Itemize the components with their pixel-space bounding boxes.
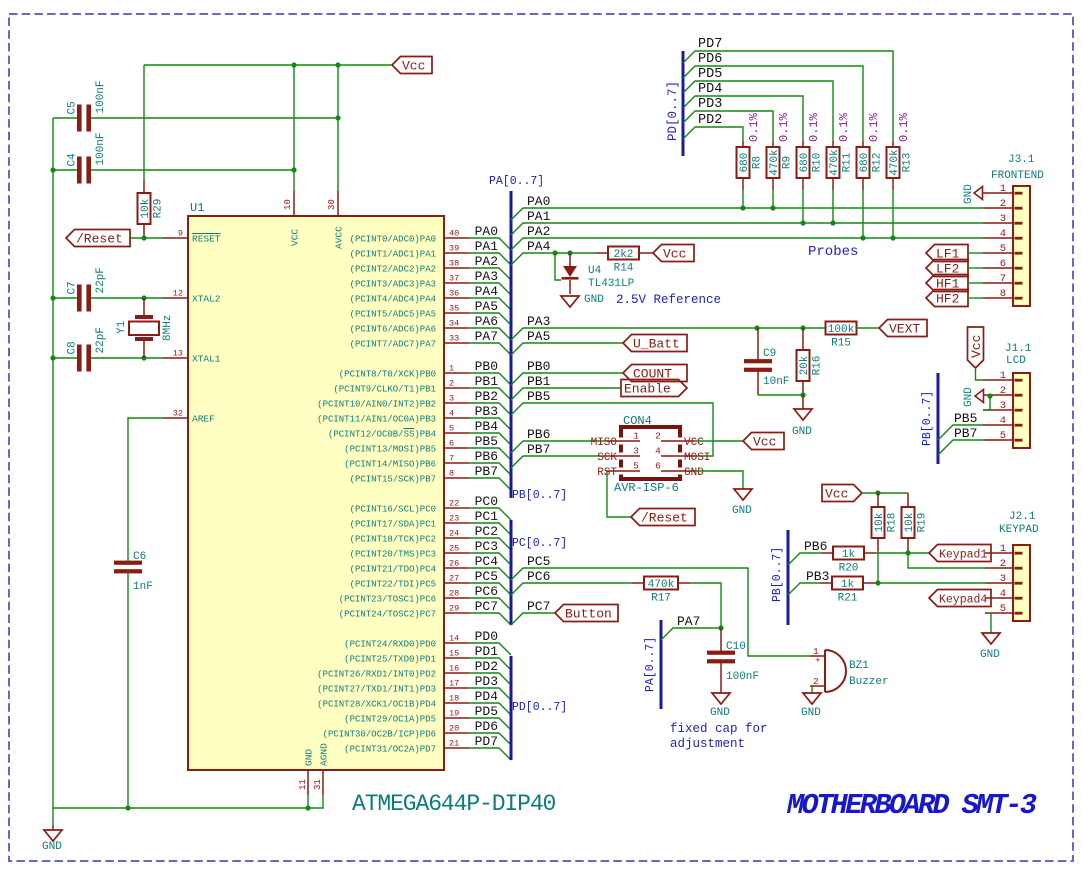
wire LF2 to J3.1 <box>968 267 983 269</box>
bus PD[0..7] top right <box>682 51 685 156</box>
junction R13-probe wire <box>890 235 895 240</box>
svg-text:C7: C7 <box>67 281 79 294</box>
svg-text:PD4: PD4 <box>475 689 499 704</box>
svg-text:(PCINT9/CLKO/T1)PB1: (PCINT9/CLKO/T1)PB1 <box>333 384 436 394</box>
svg-text:PD6: PD6 <box>698 52 722 67</box>
svg-text:1: 1 <box>1000 370 1006 382</box>
pin 37 PA3 of U1 with wire to bus <box>350 269 511 295</box>
svg-text:R21: R21 <box>838 593 858 605</box>
svg-text:GND: GND <box>801 707 821 719</box>
svg-text:GND: GND <box>304 749 315 766</box>
svg-text:5: 5 <box>1000 430 1006 442</box>
svg-text:U_Batt: U_Batt <box>633 337 680 352</box>
svg-text:8: 8 <box>449 469 454 479</box>
svg-text:PD0: PD0 <box>475 629 498 644</box>
svg-text:FRONTEND: FRONTEND <box>991 170 1044 182</box>
svg-text:(PCINT6/ADC6)PA6: (PCINT6/ADC6)PA6 <box>350 324 436 334</box>
wire C4 row <box>53 169 77 171</box>
svg-text:MOSI: MOSI <box>684 452 710 464</box>
svg-text:6: 6 <box>449 439 454 449</box>
svg-text:0.1%: 0.1% <box>837 112 851 142</box>
svg-text:(PCINT16/SCL)PC0: (PCINT16/SCL)PC0 <box>350 504 436 514</box>
connector CON4 AVR-ISP-6 <box>591 414 711 495</box>
bus PD vertical segment <box>510 656 513 760</box>
bus PC vertical segment <box>510 520 513 625</box>
junction C6-GND wire <box>125 805 130 810</box>
hierarchical label HF2 <box>926 290 968 307</box>
svg-text:31: 31 <box>313 779 323 790</box>
svg-text:0.1%: 0.1% <box>777 112 791 142</box>
ground symbol C10 <box>710 693 730 719</box>
svg-text:PA4: PA4 <box>527 239 551 254</box>
resistor R21 1k <box>820 577 876 605</box>
svg-text:PD2: PD2 <box>698 113 722 128</box>
pin 22 PC0 of U1 with wire to bus <box>350 494 511 520</box>
net PB7 wire to CON4 SCK <box>511 456 606 468</box>
svg-text:GND: GND <box>963 184 975 204</box>
pin 32 AREF of U1 <box>163 409 215 425</box>
pin 5 PB4 of U1 with wire to bus <box>328 419 511 445</box>
svg-text:40: 40 <box>449 229 459 239</box>
svg-text:GND: GND <box>732 505 752 517</box>
wire R29 bottom to RESET <box>130 237 163 239</box>
net PB1 wire to Enable <box>511 388 621 400</box>
svg-text:7: 7 <box>1000 273 1006 285</box>
pin 13 XTAL1 of U1 <box>163 349 221 365</box>
svg-text:0.1%: 0.1% <box>897 112 911 142</box>
svg-text:(PCINT28/XCK1/OC1B)PD4: (PCINT28/XCK1/OC1B)PD4 <box>317 699 436 709</box>
svg-text:3: 3 <box>1000 213 1006 225</box>
junction R29-RESET <box>141 235 146 240</box>
svg-text:Vcc: Vcc <box>753 435 776 450</box>
voltage reference U4 TL431LP <box>555 253 635 294</box>
wire R29 top to Vcc rail <box>143 65 145 180</box>
svg-text:0.1%: 0.1% <box>747 112 761 142</box>
svg-text:Probes: Probes <box>808 244 858 260</box>
svg-text:PD[0..7]: PD[0..7] <box>666 81 680 141</box>
hierarchical label Keypad1 <box>929 545 991 562</box>
wire R10 bottom to probe row <box>802 190 804 223</box>
svg-text:PB[0..7]: PB[0..7] <box>921 391 934 446</box>
wire Vcc to J1.1 pin1 <box>976 368 984 380</box>
wire R12 bottom to probe row <box>862 190 864 238</box>
svg-text:22: 22 <box>449 499 459 509</box>
svg-text:CON4: CON4 <box>623 414 652 428</box>
pin 26 PC4 of U1 with wire to bus <box>350 554 511 580</box>
svg-text:(PCINT7/ADC7)PA7: (PCINT7/ADC7)PA7 <box>350 339 436 349</box>
junction J1.1 pin2 GND <box>987 393 992 398</box>
svg-text:1: 1 <box>449 364 454 374</box>
resistor R29 10k <box>138 180 165 238</box>
svg-text:(PCINT1/ADC1)PA1: (PCINT1/ADC1)PA1 <box>350 249 436 259</box>
net PA2 wire to J3.1 pin 4 <box>511 238 983 250</box>
svg-text:9: 9 <box>178 229 183 239</box>
svg-text:PA1: PA1 <box>475 239 499 254</box>
svg-text:fixed cap for: fixed cap for <box>670 722 768 736</box>
wire Vcc rail top <box>144 64 392 66</box>
pin 35 PA5 of U1 with wire to bus <box>350 299 511 325</box>
wire LF1 to J3.1 <box>968 252 983 254</box>
svg-text:(PCINT24/RXD0)PD0: (PCINT24/RXD0)PD0 <box>344 639 436 649</box>
svg-text:32: 32 <box>173 409 183 419</box>
svg-text:PB7: PB7 <box>527 442 550 457</box>
svg-text:C4: C4 <box>67 153 79 167</box>
svg-text:Vcc: Vcc <box>825 487 848 502</box>
svg-text:2: 2 <box>1000 198 1006 210</box>
svg-text:PD1: PD1 <box>475 644 499 659</box>
pin 30 AVCC of U1 <box>327 191 345 249</box>
net PA0 wire to J3.1 pin 2 <box>511 208 983 220</box>
svg-text:(PCINT30/OC2B/ICP)PD6: (PCINT30/OC2B/ICP)PD6 <box>323 729 436 739</box>
pin 14 PD0 of U1 with wire to bus <box>344 629 511 655</box>
svg-text:(PCINT24/TOSC2)PC7: (PCINT24/TOSC2)PC7 <box>339 609 436 619</box>
svg-text:30: 30 <box>327 199 337 210</box>
svg-text:LCD: LCD <box>1006 355 1026 367</box>
svg-text:PB7: PB7 <box>475 464 498 479</box>
svg-text:(PCINT5/ADC5)PA5: (PCINT5/ADC5)PA5 <box>350 309 436 319</box>
svg-text:4: 4 <box>1000 228 1006 240</box>
resistor R12 680 0.1% <box>857 112 884 190</box>
ground symbol BZ1 <box>801 693 821 719</box>
svg-text:4: 4 <box>1000 588 1006 600</box>
svg-text:PA5: PA5 <box>527 329 550 344</box>
svg-text:U4: U4 <box>588 265 602 277</box>
svg-text:PC5: PC5 <box>527 554 550 569</box>
pin 16 PD2 of U1 with wire to bus <box>317 659 511 685</box>
svg-text:/Reset: /Reset <box>76 232 123 247</box>
pin 25 PC3 of U1 with wire to bus <box>350 539 511 565</box>
wire left GND rail <box>52 118 54 808</box>
svg-text:(PCINT14/MISO)PB6: (PCINT14/MISO)PB6 <box>344 459 436 469</box>
svg-text:2: 2 <box>449 379 454 389</box>
svg-text:PB5: PB5 <box>954 411 977 426</box>
bus PA[0..7] bottom <box>660 620 663 709</box>
svg-text:PB3: PB3 <box>475 404 498 419</box>
svg-text:J3.1: J3.1 <box>1008 154 1035 166</box>
junction R11-probe wire <box>830 220 835 225</box>
svg-text:PD7: PD7 <box>475 734 498 749</box>
pin 29 PC7 of U1 with wire to bus <box>339 599 511 625</box>
svg-text:22pF: 22pF <box>95 267 107 293</box>
power label Vcc at J1.1 vertical <box>968 327 984 368</box>
svg-text:5: 5 <box>449 424 454 434</box>
wire R11 bottom to probe row <box>832 190 834 223</box>
net PD2 wire to resistor column <box>683 127 743 141</box>
connector J3.1 FRONTEND <box>983 154 1044 306</box>
svg-text:5: 5 <box>1000 243 1006 255</box>
svg-text:VCC: VCC <box>684 437 704 449</box>
svg-text:PC6: PC6 <box>475 584 498 599</box>
svg-text:RESET: RESET <box>192 233 221 244</box>
wire AREF to C6 <box>128 418 163 562</box>
svg-text:R18: R18 <box>887 513 899 533</box>
wire Vcc to R18 R19 <box>862 492 908 494</box>
svg-text:AVCC: AVCC <box>334 226 345 249</box>
junction PA4-TL431 ref <box>552 250 557 255</box>
net PC7 wire to Button <box>511 613 555 625</box>
wire R21 to J2.1 pin3 <box>876 582 985 584</box>
svg-text:TL431LP: TL431LP <box>588 278 635 290</box>
junction PA7-C10 <box>718 625 723 630</box>
svg-text:(PCINT25/TXD0)PD1: (PCINT25/TXD0)PD1 <box>344 654 436 664</box>
svg-text:28: 28 <box>449 589 459 599</box>
svg-text:680: 680 <box>799 153 811 173</box>
junction rail-C7 <box>50 295 55 300</box>
wire CON4 VCC to Vcc label <box>695 440 743 442</box>
hierarchical label Enable <box>621 380 687 397</box>
svg-text:(PCINT15/SCK)PB7: (PCINT15/SCK)PB7 <box>350 474 436 484</box>
svg-text:Buzzer: Buzzer <box>849 676 889 688</box>
net PD6 wire to resistor column <box>683 66 863 141</box>
buzzer BZ1 <box>810 646 889 692</box>
wire J2.1 pin5 to GND <box>990 613 992 633</box>
resistor R15 100k <box>826 322 880 350</box>
svg-text:20k: 20k <box>799 355 811 375</box>
svg-text:100nF: 100nF <box>726 671 759 683</box>
junction R18-PB3 <box>875 580 880 585</box>
svg-text:+: + <box>815 655 821 666</box>
svg-text:AGND: AGND <box>319 743 330 766</box>
svg-text:PB1: PB1 <box>527 374 551 389</box>
junction C5-AVCC <box>335 115 340 120</box>
svg-text:VCC: VCC <box>290 229 301 246</box>
svg-text:PA0: PA0 <box>527 194 550 209</box>
capacitor C9 10nF <box>744 328 789 395</box>
svg-text:8: 8 <box>1000 288 1006 300</box>
svg-text:GND: GND <box>584 294 604 306</box>
ground symbol U4 <box>561 294 604 307</box>
svg-text:2: 2 <box>1000 385 1006 397</box>
wire R18 bottom to PB3 row <box>877 551 879 583</box>
net PB5 wire to J1.1 pin4 <box>938 425 983 440</box>
wire R9 bottom to probe row <box>772 190 774 208</box>
pin 18 PD4 of U1 with wire to bus <box>317 689 511 715</box>
svg-text:27: 27 <box>449 574 459 584</box>
svg-text:22pF: 22pF <box>95 327 107 353</box>
wire C7 row <box>53 297 77 299</box>
svg-text:C6: C6 <box>133 551 146 563</box>
pin 10 VCC of U1 <box>283 191 301 246</box>
net PC6 wire to R17 <box>511 583 632 595</box>
svg-text:10: 10 <box>283 199 293 210</box>
resistor R10 680 0.1% <box>797 112 824 190</box>
svg-text:SCK: SCK <box>597 452 617 464</box>
svg-text:3: 3 <box>1000 400 1006 412</box>
svg-text:R17: R17 <box>651 593 671 605</box>
svg-text:36: 36 <box>449 289 459 299</box>
net PA1 wire to J3.1 pin 3 <box>511 223 983 235</box>
svg-text:PB6: PB6 <box>527 427 550 442</box>
junction C4-VCC <box>291 167 296 172</box>
svg-text:Y1: Y1 <box>116 320 128 334</box>
wire CON4 GND <box>695 471 743 489</box>
net PB0 wire to COUNT <box>511 373 623 385</box>
svg-text:PB0: PB0 <box>475 359 498 374</box>
svg-text:(PCINT11/AIN1/OC0A)PB3: (PCINT11/AIN1/OC0A)PB3 <box>317 414 436 424</box>
svg-text:PA2: PA2 <box>527 224 550 239</box>
svg-text:BZ1: BZ1 <box>849 660 869 672</box>
wire R13 bottom to probe row <box>892 190 894 238</box>
connector J2.1 KEYPAD <box>985 511 1039 621</box>
svg-text:PD3: PD3 <box>698 97 722 112</box>
svg-text:14: 14 <box>449 634 459 644</box>
svg-text:R10: R10 <box>812 153 824 173</box>
svg-text:11: 11 <box>298 779 308 790</box>
pin 7 PB6 of U1 with wire to bus <box>344 449 511 475</box>
svg-text:AREF: AREF <box>192 413 215 424</box>
svg-text:1k: 1k <box>842 549 856 561</box>
net PB6 wire to R20 <box>788 553 821 565</box>
svg-text:PB3: PB3 <box>806 569 829 584</box>
svg-text:GND: GND <box>42 841 62 853</box>
svg-text:PB5: PB5 <box>527 389 550 404</box>
svg-text:2k2: 2k2 <box>614 249 634 261</box>
svg-text:Vcc: Vcc <box>663 247 686 262</box>
svg-text:PC0: PC0 <box>475 494 498 509</box>
svg-text:PA5: PA5 <box>475 299 498 314</box>
svg-text:15: 15 <box>449 649 459 659</box>
svg-text:VEXT: VEXT <box>889 322 920 337</box>
wire R8 bottom to probe row <box>742 190 744 208</box>
resistor R17 470k <box>632 577 690 605</box>
svg-text:Keypad1: Keypad1 <box>939 549 987 562</box>
svg-text:PA2: PA2 <box>475 254 498 269</box>
svg-text:100nF: 100nF <box>95 80 107 113</box>
svg-text:8MHz: 8MHz <box>162 315 174 341</box>
junction R10-probe wire <box>800 220 805 225</box>
svg-text:PA6: PA6 <box>475 314 498 329</box>
pin 39 PA1 of U1 with wire to bus <box>350 239 511 265</box>
svg-text:PC5: PC5 <box>475 569 498 584</box>
wire HF1 to J3.1 <box>968 282 983 284</box>
pin 24 PC2 of U1 with wire to bus <box>350 524 511 550</box>
svg-text:Enable: Enable <box>624 382 671 397</box>
svg-text:PD2: PD2 <box>475 659 498 674</box>
pin 17 PD3 of U1 with wire to bus <box>317 674 511 700</box>
svg-text:J1.1: J1.1 <box>1005 343 1032 355</box>
pin 33 PA7 of U1 with wire to bus <box>350 329 511 355</box>
pin 1 PB0 of U1 with wire to bus <box>339 359 511 385</box>
svg-text:(PCINT23/TOSC1)PC6: (PCINT23/TOSC1)PC6 <box>339 594 436 604</box>
hierarchical label /Reset left <box>66 230 130 247</box>
svg-text:PB0: PB0 <box>527 359 550 374</box>
svg-text:PA4: PA4 <box>475 284 499 299</box>
svg-text:GND: GND <box>792 426 812 438</box>
junction R16 bottom <box>800 392 805 397</box>
net PB3 wire to R21 <box>788 583 820 595</box>
svg-text:470k: 470k <box>889 149 901 176</box>
svg-text:PD6: PD6 <box>475 719 498 734</box>
junction PA4-TL431 cathode <box>567 250 572 255</box>
ground symbol J2.1 <box>980 633 1000 661</box>
pin 12 XTAL2 of U1 <box>163 289 221 305</box>
junction Vcc-VCC pin <box>291 62 296 67</box>
resistor R13 470k 0.1% <box>887 112 914 190</box>
svg-text:PC2: PC2 <box>475 524 498 539</box>
svg-text:C5: C5 <box>67 101 79 114</box>
svg-text:3: 3 <box>449 394 454 404</box>
svg-text:2.5V Reference: 2.5V Reference <box>616 293 721 307</box>
hierarchical label Button <box>555 605 618 622</box>
svg-text:38: 38 <box>449 259 459 269</box>
svg-text:680: 680 <box>859 153 871 173</box>
svg-text:PA7: PA7 <box>475 329 498 344</box>
pin 8 PB7 of U1 with wire to bus <box>350 464 511 490</box>
svg-text:PA[0..7]: PA[0..7] <box>489 175 544 188</box>
svg-text:2: 2 <box>813 676 819 687</box>
svg-text:3: 3 <box>1000 573 1006 585</box>
wire C6 bottom <box>127 572 129 808</box>
svg-text:(PCINT4/ADC4)PA4: (PCINT4/ADC4)PA4 <box>350 294 436 304</box>
resistor R11 470k 0.1% <box>827 112 854 190</box>
hierarchical label VEXT <box>879 320 927 337</box>
net PB5 wire to CON4 MOSI <box>511 403 713 456</box>
pin 2 PB1 of U1 with wire to bus <box>333 374 511 400</box>
hierarchical label COUNT <box>623 365 687 382</box>
svg-text:KEYPAD: KEYPAD <box>999 524 1039 536</box>
svg-text:2: 2 <box>1000 558 1006 570</box>
capacitor C8 22pF <box>67 327 108 371</box>
svg-text:PA1: PA1 <box>527 209 551 224</box>
svg-text:PD[0..7]: PD[0..7] <box>512 701 567 714</box>
svg-text:PA3: PA3 <box>527 314 550 329</box>
svg-text:PB6: PB6 <box>804 539 827 554</box>
svg-text:(PCINT13/MOSI)PB5: (PCINT13/MOSI)PB5 <box>344 444 436 454</box>
svg-text:26: 26 <box>449 559 459 569</box>
junction R19-PB6 <box>905 550 910 555</box>
pin 23 PC1 of U1 with wire to bus <box>350 509 511 535</box>
wire J1.1 pin2 to pin3 <box>983 396 990 410</box>
svg-text:XTAL1: XTAL1 <box>192 353 221 364</box>
svg-text:(PCINT29/OC1A)PD5: (PCINT29/OC1A)PD5 <box>344 714 436 724</box>
svg-text:PC3: PC3 <box>475 539 498 554</box>
hierarchical label LF1 <box>926 245 968 262</box>
svg-text:/Reset: /Reset <box>641 511 688 526</box>
svg-text:1nF: 1nF <box>133 581 153 593</box>
svg-text:6: 6 <box>1000 258 1006 270</box>
svg-text:18: 18 <box>449 694 459 704</box>
svg-text:PC1: PC1 <box>475 509 499 524</box>
pin 40 PA0 of U1 with wire to bus <box>350 224 511 250</box>
svg-text:PC6: PC6 <box>527 569 550 584</box>
net PD5 wire to resistor column <box>683 81 833 141</box>
svg-text:10k: 10k <box>904 512 916 532</box>
svg-text:(PCINT26/RXD1/INT0)PD2: (PCINT26/RXD1/INT0)PD2 <box>317 669 436 679</box>
capacitor C6 1nF <box>114 551 153 593</box>
net PD4 wire to resistor column <box>683 96 803 141</box>
junction R8-probe wire <box>740 205 745 210</box>
svg-text:XTAL2: XTAL2 <box>192 293 221 304</box>
resistor R18 10k <box>872 493 899 551</box>
svg-text:PB[0..7]: PB[0..7] <box>512 489 567 502</box>
wire C5 row <box>53 117 77 119</box>
svg-text:PA[0..7]: PA[0..7] <box>644 637 657 692</box>
svg-text:PB2: PB2 <box>475 389 498 404</box>
svg-text:AVR-ISP-6: AVR-ISP-6 <box>614 481 679 495</box>
pin 19 PD5 of U1 with wire to bus <box>344 704 511 730</box>
svg-text:16: 16 <box>449 664 459 674</box>
junction PA3-R16 <box>800 325 805 330</box>
wire R19 bottom to PB6 row <box>907 551 909 553</box>
svg-text:25: 25 <box>449 544 459 554</box>
svg-text:GND: GND <box>980 649 1000 661</box>
resistor R14 2k2 <box>596 247 653 275</box>
svg-text:17: 17 <box>449 679 459 689</box>
svg-text:PD3: PD3 <box>475 674 498 689</box>
svg-text:C8: C8 <box>67 341 79 354</box>
svg-text:1: 1 <box>633 431 639 442</box>
svg-text:6: 6 <box>655 461 661 472</box>
